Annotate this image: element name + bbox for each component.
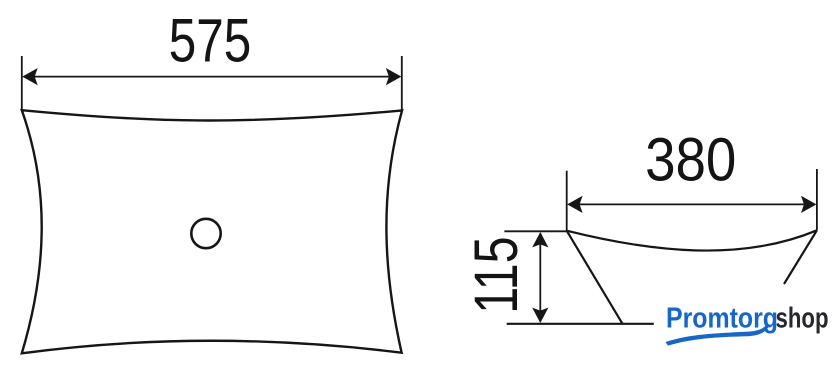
svg-text:115: 115 [462,236,531,313]
dimension 380 left extension line [566,171,568,231]
dimension 575 right arrowhead [386,68,401,85]
dimension 115 bottom arrowhead [532,308,548,323]
dimension 115 line [539,234,541,322]
dimension 575 left extension line [21,56,23,110]
svg-text:380: 380 [645,127,736,194]
dimension 575 left arrowhead [22,68,37,85]
basin side view bottom line [507,323,654,325]
dimension 380 left arrowhead [567,196,582,213]
svg-text:shop: shop [776,302,829,334]
dimension 115 top arrowhead [532,232,548,247]
drain hole circle [191,219,220,248]
basin side view top rim curve [567,230,817,250]
dimension 380 right arrowhead [801,196,816,213]
basin side view left slope [567,231,623,324]
dimension 380 line [569,203,815,205]
basin top view outline [22,110,402,353]
dimension 115 top extension line [504,230,567,232]
logo swoosh underline [666,324,770,346]
dimension 380 right extension line [816,169,818,230]
basin side view right slope (truncated) [784,230,817,284]
svg-text:575: 575 [169,6,252,74]
dimension 575 line [24,76,401,78]
dimension 575 right extension line [401,56,403,110]
